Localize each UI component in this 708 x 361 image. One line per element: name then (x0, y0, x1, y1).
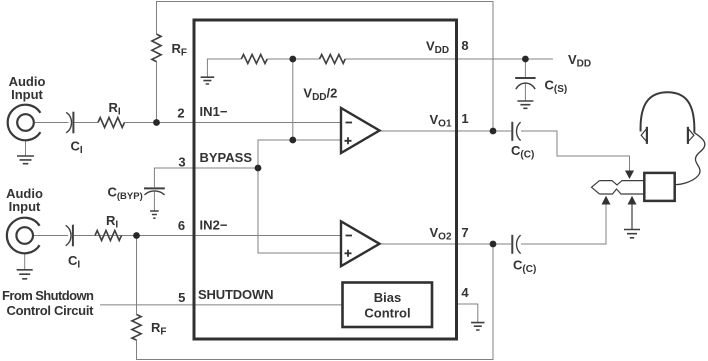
svg-text:8: 8 (461, 38, 468, 53)
svg-text:Input: Input (9, 199, 41, 214)
svg-text:IN1−: IN1− (200, 104, 228, 119)
svg-text:5: 5 (178, 290, 185, 305)
svg-text:3: 3 (178, 155, 185, 170)
svg-text:From Shutdown: From Shutdown (2, 288, 94, 303)
svg-text:Control: Control (364, 306, 410, 321)
svg-text:Input: Input (11, 87, 43, 102)
svg-text:SHUTDOWN: SHUTDOWN (198, 287, 274, 302)
svg-text:BYPASS: BYPASS (200, 150, 253, 165)
svg-text:4: 4 (461, 285, 469, 300)
svg-text:IN2−: IN2− (200, 218, 228, 233)
svg-text:1: 1 (461, 111, 468, 126)
svg-text:Bias: Bias (374, 290, 401, 305)
svg-text:Control Circuit: Control Circuit (7, 303, 95, 318)
svg-text:2: 2 (177, 106, 184, 121)
svg-text:6: 6 (178, 218, 185, 233)
svg-text:7: 7 (461, 225, 468, 240)
